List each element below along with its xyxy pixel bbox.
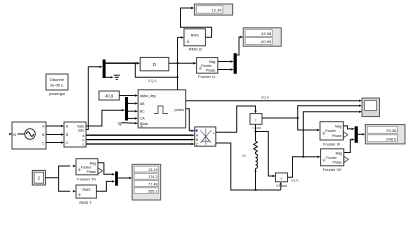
- svg-text:2e-05 s.: 2e-05 s.: [50, 84, 64, 88]
- wire Fourier I0 Mag to mux3: [343, 126, 351, 129]
- svg-text:43.98: 43.98: [261, 31, 272, 36]
- wire D output to Fourier I1: [169, 62, 193, 64]
- thyristor bridge block: [195, 127, 216, 146]
- demux1 top output wire to block D: [106, 62, 137, 64]
- svg-text:Fourier V0: Fourier V0: [323, 167, 342, 172]
- svg-text:D: D: [153, 62, 156, 67]
- Fourier V0 Phase open arrow: [344, 156, 349, 162]
- bottom rail junction at RL: [255, 189, 257, 191]
- phase wire b to bridge: [86, 139, 191, 141]
- display (load values): [365, 125, 405, 144]
- RMS T block: [76, 185, 96, 205]
- i signal up to scope: [298, 106, 359, 118]
- svg-text:29.36: 29.36: [386, 128, 397, 133]
- three-phase V-I measurement block: [64, 122, 86, 147]
- display (Fourier T0 / RMS T values): [132, 164, 161, 200]
- v signal up to scope: [303, 112, 359, 157]
- svg-text:77.48: 77.48: [148, 182, 158, 186]
- svg-text:V Load: V Load: [276, 184, 287, 188]
- signal ground for Block port: [117, 123, 123, 125]
- synchronized 6-pulse generator: [138, 90, 186, 128]
- svg-text:+: +: [213, 131, 215, 135]
- svg-text:-40.99: -40.99: [260, 39, 272, 44]
- wire pulses to bridge gate: [186, 109, 192, 131]
- phase wire a to bridge: [86, 134, 191, 136]
- wire ground to Block port: [122, 122, 135, 125]
- svg-text:Fourier T0: Fourier T0: [77, 176, 96, 181]
- series RL load: [242, 141, 257, 190]
- svg-text:Fourier I0: Fourier I0: [323, 141, 341, 146]
- wire V Load minus from bottom rail: [280, 185, 282, 190]
- svg-text:Ua,A: Ua,A: [291, 179, 299, 183]
- svg-text:Discrete: Discrete: [50, 78, 64, 82]
- svg-text:248.6: 248.6: [386, 136, 397, 141]
- node junction dot: [255, 131, 257, 133]
- svg-text:pulses: pulses: [174, 108, 184, 112]
- Fourier I0 Phase open arrow: [343, 132, 348, 138]
- wire i Load bottom to node: [255, 124, 257, 141]
- scope block: [362, 98, 380, 117]
- wire Fourier I1 Phase to mux: [218, 69, 231, 71]
- voltage measurement V Load: [276, 173, 288, 188]
- svg-text:RMS i2: RMS i2: [189, 47, 203, 52]
- wire RMS T to mux4: [96, 181, 112, 191]
- junction on v signal: [302, 156, 304, 158]
- phase wire c to bridge: [86, 143, 191, 145]
- svg-text:Mag: Mag: [335, 125, 342, 129]
- long wire I1Q,A to scope input 1: [186, 100, 359, 102]
- current measurement i Load: [250, 114, 262, 130]
- inport 2: [32, 170, 45, 185]
- junction on D input: [134, 62, 136, 64]
- svg-text:174.3: 174.3: [148, 175, 158, 179]
- wire Iabc up to demux: [86, 67, 100, 130]
- wire source C to measurement: [46, 142, 61, 144]
- svg-text:Fourier: Fourier: [325, 129, 336, 133]
- svg-text:i Load: i Load: [252, 126, 261, 130]
- block U1 (D): [140, 57, 169, 70]
- wire source A to measurement: [46, 125, 61, 127]
- display (Fourier I1 values): [243, 28, 281, 46]
- svg-text:RMS: RMS: [191, 34, 200, 38]
- wire RMS i2 to display: [181, 8, 212, 37]
- svg-text:alpha_deg: alpha_deg: [140, 94, 156, 98]
- mux 2: [234, 53, 237, 74]
- wire Vabc to sync demux: [86, 110, 122, 126]
- svg-text:RMS: RMS: [83, 188, 92, 192]
- svg-text:Fourier I1: Fourier I1: [198, 74, 216, 79]
- svg-text:CA: CA: [140, 117, 145, 121]
- mux 4: [115, 171, 118, 185]
- wire bridge plus to i Load: [216, 106, 256, 132]
- Fourier V0 block: [321, 149, 344, 172]
- wire bridge minus to bottom rail: [216, 143, 281, 190]
- wire mux2 to display2: [237, 37, 240, 55]
- Fourier T0 Phase open arrow: [98, 168, 103, 174]
- svg-text:Fourier: Fourier: [326, 156, 337, 160]
- svg-text:-: -: [214, 142, 215, 146]
- RMS i2 block: [184, 29, 205, 52]
- svg-text:12.34: 12.34: [212, 7, 223, 12]
- wire Fourier T0 Mag to mux4: [98, 163, 112, 175]
- demux1 bottom output to terminator: [106, 76, 111, 78]
- v signal to Fourier V0: [303, 156, 317, 158]
- svg-text:Phase: Phase: [87, 170, 97, 174]
- svg-text:powergui: powergui: [49, 91, 65, 96]
- svg-text:N: N: [13, 133, 16, 137]
- demux out CA: [128, 117, 135, 119]
- wire Fourier V0 Mag up to mux3: [344, 140, 352, 153]
- demux out AB: [128, 102, 135, 104]
- Fourier I0 block: [320, 122, 343, 147]
- svg-text:Phase: Phase: [332, 134, 342, 138]
- svg-text:BC: BC: [140, 110, 145, 114]
- terminator symbol: [114, 75, 120, 79]
- svg-text:Mag: Mag: [336, 151, 343, 155]
- i Load signal wire: [262, 117, 298, 119]
- junction at x=177.5 on main wire: [177, 62, 179, 64]
- powergui block: [46, 74, 68, 96]
- wire mux3 to display3: [358, 133, 362, 135]
- three-phase source: [9, 122, 46, 149]
- junction at x=177.5 lower: [177, 76, 179, 78]
- wire constant to alpha_deg: [119, 95, 135, 97]
- Fourier I1 block: [197, 58, 218, 79]
- vertical bus x=177.5 RMS to scope wire: [178, 37, 187, 100]
- junction on i signal: [297, 117, 299, 119]
- branch wire below D (I1Q,A): [135, 63, 177, 77]
- i signal down to Fourier I0: [298, 118, 317, 130]
- svg-text:RL: RL: [242, 154, 246, 158]
- demux 1 (phase A select): [103, 60, 106, 79]
- svg-text:Iabc: Iabc: [78, 128, 85, 132]
- mux 3: [355, 126, 358, 143]
- svg-text:265.2: 265.2: [148, 190, 158, 194]
- svg-text:UQ,A: UQ,A: [261, 96, 270, 100]
- Fourier T0 block: [76, 159, 98, 182]
- svg-text:13.19: 13.19: [148, 168, 158, 172]
- wire node to V Load plus: [256, 132, 273, 177]
- wire source B to measurement: [46, 134, 61, 136]
- wire into RMS i2: [178, 36, 181, 38]
- wire inport to Fourier T0 and RMS T: [45, 166, 70, 178]
- demux out BC: [128, 110, 135, 112]
- wire mux4 to display4: [118, 177, 129, 179]
- sync demux: [125, 97, 128, 121]
- svg-text:RMS T: RMS T: [79, 200, 92, 205]
- svg-text:Phase: Phase: [333, 160, 343, 164]
- svg-text:40.9: 40.9: [105, 93, 114, 98]
- display (RMS i2 value): [194, 4, 232, 15]
- wire Fourier I1 Mag to mux: [218, 61, 231, 63]
- constant 40.9: [99, 91, 119, 100]
- V Load signal out: [288, 157, 304, 177]
- svg-text:I1Q,A: I1Q,A: [148, 79, 157, 83]
- svg-text:Phase: Phase: [206, 68, 216, 72]
